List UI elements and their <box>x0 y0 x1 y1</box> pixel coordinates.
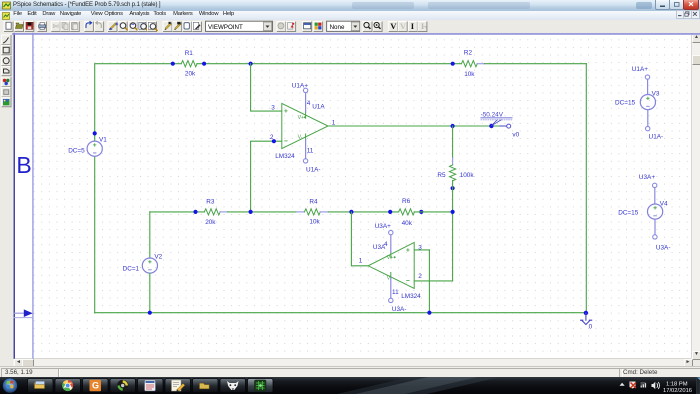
U1A part name LM324 <box>275 153 295 160</box>
wire U3A output branch <box>351 212 368 266</box>
svg-text:R5: R5 <box>437 172 446 179</box>
R4 pin stub left <box>297 211 305 213</box>
U1A- terminal label <box>306 167 321 174</box>
wire U1A pin3 branch <box>251 64 282 111</box>
wire mid net R6 to R5 <box>414 211 452 213</box>
V2 value label DC=1 <box>123 265 140 272</box>
svg-text:U3A+: U3A+ <box>375 223 391 230</box>
svg-text:V2: V2 <box>154 253 162 260</box>
wire top net: V1 to R1 <box>95 64 182 141</box>
wire top net: R2 to right rail <box>484 63 586 65</box>
svg-text:R6: R6 <box>402 198 411 205</box>
junction dot R1 left <box>171 62 175 66</box>
U3A- power terminal <box>389 298 393 302</box>
U3A pin 11 power lead <box>390 273 392 299</box>
V4 top lead <box>654 188 656 204</box>
svg-text:B: B <box>16 152 31 178</box>
border zone divider <box>14 317 33 319</box>
R2 ref label <box>464 50 473 57</box>
U1A pin1 number <box>332 119 336 126</box>
svg-text:11: 11 <box>392 289 399 296</box>
V4 value label DC=15 <box>618 209 639 216</box>
scrollbars <box>691 33 700 358</box>
svg-text:11: 11 <box>307 147 314 154</box>
svg-text:2: 2 <box>418 273 422 280</box>
wire bottom ground rail <box>95 312 587 314</box>
R3 value label 20k <box>205 219 216 226</box>
wire top net: R1 to R2 <box>197 63 462 65</box>
junction dot ground node <box>584 311 588 315</box>
svg-text:U3A-: U3A- <box>656 244 671 251</box>
U3A pin1 number <box>359 257 363 264</box>
wire V2 top lead <box>149 212 151 258</box>
U1A V- inside label <box>298 135 303 141</box>
junction dot above V1 <box>93 131 97 135</box>
wire mid net V2 to R3 <box>150 211 205 213</box>
svg-text:LM324: LM324 <box>275 153 295 160</box>
junction dot R2 left <box>451 62 455 66</box>
svg-text:-50.24V: -50.24V <box>481 111 504 118</box>
V3 top lead <box>647 79 649 94</box>
svg-text:100k: 100k <box>460 172 475 179</box>
V3 bottom lead <box>647 110 649 127</box>
page connector arrow <box>15 309 33 317</box>
window title bar <box>0 0 700 12</box>
U3A part name LM324 <box>401 293 421 300</box>
U3A pin2 number <box>418 273 422 280</box>
voltage source V1 <box>87 141 102 156</box>
U3A+ power terminal <box>389 230 393 234</box>
junction dot R3 left <box>193 210 197 214</box>
wire R5 bottom lead to mid net <box>452 181 454 281</box>
schematic canvas <box>13 33 691 358</box>
svg-text:1: 1 <box>332 119 336 126</box>
V3 plus terminal <box>645 75 649 79</box>
junction dot mid net R5 branch <box>451 210 455 214</box>
svg-text:3: 3 <box>271 105 275 112</box>
V4 bottom lead <box>654 219 656 234</box>
svg-text:R4: R4 <box>309 199 318 206</box>
V1 ref label <box>99 136 107 143</box>
svg-text:1: 1 <box>359 257 363 264</box>
svg-text:0: 0 <box>589 324 593 331</box>
svg-text:20k: 20k <box>205 219 216 226</box>
U1A ref label <box>312 104 325 111</box>
svg-text:20k: 20k <box>185 71 196 78</box>
junction dot mid net U1A branch <box>249 210 253 214</box>
U1A pin 11 power lead <box>305 134 307 159</box>
U3A+ terminal label <box>375 223 391 230</box>
junction dot R1 right <box>202 62 206 66</box>
R5 pin stub <box>452 158 454 165</box>
junction dot top net U1A branch <box>249 62 253 66</box>
page border inner line <box>32 34 34 359</box>
wire mid net R4 to R6 <box>328 211 398 213</box>
V3 minus terminal <box>646 126 650 130</box>
voltage source V2 <box>142 258 157 273</box>
page border top line <box>13 33 700 35</box>
voltage source V3 <box>640 95 655 110</box>
wire U1A output net <box>328 125 500 127</box>
svg-text:DC=15: DC=15 <box>615 99 636 106</box>
border zone label B <box>16 152 31 178</box>
v0 output terminal stub <box>500 125 506 127</box>
wire U1A pin2 branch <box>251 141 282 212</box>
svg-text:U3A-: U3A- <box>392 306 407 313</box>
U3A V+ inside label <box>387 255 396 261</box>
glare streak on taskbar <box>355 377 478 394</box>
V3 U1A+ label <box>632 66 648 73</box>
V3 value label DC=15 <box>615 99 636 106</box>
resistor R3 <box>204 209 220 215</box>
V4 U3A- label <box>656 244 671 251</box>
svg-text:DC=1: DC=1 <box>123 265 140 272</box>
R3 ref label <box>206 199 215 206</box>
wire mid net R3 to R4 <box>228 211 297 213</box>
wire right rail vertical <box>585 64 587 313</box>
voltage source V4 <box>648 204 663 219</box>
svg-text:V+: V+ <box>387 255 394 261</box>
resistor R2 <box>461 61 477 67</box>
viewpoint marker -50.24V <box>481 111 512 125</box>
svg-text:V3: V3 <box>652 91 660 98</box>
page border outer line <box>13 34 15 359</box>
U1A pin4 number <box>307 100 311 107</box>
svg-text:V4: V4 <box>660 200 668 207</box>
wire V1 bottom lead <box>94 156 96 312</box>
V4 minus terminal <box>653 235 657 239</box>
wire U3A pin3 feedback to ground rail <box>428 250 430 313</box>
R4 pin stub right <box>320 211 328 213</box>
svg-text:U3A: U3A <box>373 244 386 251</box>
left tool column <box>0 33 13 358</box>
U1A+ terminal label <box>292 82 308 89</box>
svg-text:DC=15: DC=15 <box>618 209 639 216</box>
junction dot mid net U3A output branch <box>349 210 353 214</box>
ground node label 0 <box>589 324 593 331</box>
R2 pin stub <box>477 63 484 65</box>
svg-text:V-: V- <box>298 135 303 141</box>
U1A pin11 number <box>307 147 314 154</box>
svg-text:2: 2 <box>270 134 274 141</box>
junction dot R6 right <box>419 210 423 214</box>
wire U3A pin2 to R5 branch <box>414 280 452 282</box>
resistor R4 <box>304 209 320 215</box>
R1 ref label <box>185 50 194 57</box>
svg-text:40k: 40k <box>402 220 413 227</box>
V4 ref label <box>660 200 668 207</box>
wire R5 top lead <box>452 126 454 158</box>
junction dot viewpoint <box>489 124 493 128</box>
tray <box>620 383 625 386</box>
v0 node label <box>512 131 519 138</box>
R6 ref label <box>402 198 411 205</box>
svg-text:U3A+: U3A+ <box>639 174 655 181</box>
svg-text:DC=5: DC=5 <box>68 147 85 154</box>
V1 value label DC=5 <box>68 147 85 154</box>
ground symbol 0 <box>581 313 592 325</box>
R5 ref label <box>437 172 446 179</box>
R4 value label 10k <box>309 219 320 226</box>
svg-text:R1: R1 <box>185 50 194 57</box>
V4 U3A+ label <box>639 174 655 181</box>
R5 value label 100k <box>460 172 475 179</box>
svg-text:V+: V+ <box>298 115 305 121</box>
svg-text:U1A: U1A <box>312 104 325 111</box>
status bar <box>0 366 700 378</box>
wire V2 bottom lead <box>149 273 151 313</box>
junction dot feedback ground <box>427 311 431 315</box>
svg-text:10k: 10k <box>309 219 320 226</box>
U3A pin 4 power lead <box>390 235 392 258</box>
U3A- terminal label <box>392 306 407 313</box>
wire U3A pin3 stub <box>414 249 429 251</box>
svg-text:U1A-: U1A- <box>306 167 321 174</box>
op-amp U1A <box>282 103 328 148</box>
R3 pin stub <box>220 211 228 213</box>
U3A pin3 number <box>418 245 422 252</box>
R6 value label 40k <box>402 220 413 227</box>
U1A pin 4 power lead <box>305 93 307 118</box>
toolbar <box>0 20 700 33</box>
U1A pin2 number <box>270 134 274 141</box>
svg-text:U1A+: U1A+ <box>632 66 648 73</box>
R1 value label 20k <box>185 71 196 78</box>
U3A V- inside label <box>387 275 392 281</box>
V2 ref label <box>154 253 162 260</box>
V3 U1A- label <box>649 133 664 140</box>
svg-text:R2: R2 <box>464 50 473 57</box>
resistor R6 <box>399 209 415 215</box>
U3A pin11 number <box>392 289 399 296</box>
svg-text:v0: v0 <box>512 131 519 138</box>
svg-text:R3: R3 <box>206 199 215 206</box>
junction dot R5 bottom <box>451 186 455 190</box>
U1A- power terminal <box>303 159 307 163</box>
U3A pin4 number <box>384 241 388 248</box>
R2 value label 10k <box>464 71 475 78</box>
resistor R1 <box>181 61 197 67</box>
svg-text:U1A+: U1A+ <box>292 82 308 89</box>
v0 terminal circle <box>507 124 511 128</box>
U1A+ power terminal <box>303 88 307 92</box>
R4 ref label <box>309 199 318 206</box>
menu bar <box>0 11 700 21</box>
taskbar <box>0 377 700 394</box>
junction dot V2 ground <box>148 311 152 315</box>
junction dot R6 left <box>388 210 392 214</box>
svg-text:10k: 10k <box>464 71 475 78</box>
resistor R5 <box>450 165 456 181</box>
U3A ref label <box>373 244 386 251</box>
V4 plus terminal <box>653 183 657 187</box>
U1A pin3 number <box>271 105 275 112</box>
op-amp U3A <box>368 242 414 288</box>
svg-text:3: 3 <box>418 245 422 252</box>
svg-text:4: 4 <box>307 100 311 107</box>
svg-text:U1A-: U1A- <box>649 133 664 140</box>
svg-text:LM324: LM324 <box>401 293 421 300</box>
U1A V+ inside label <box>298 115 306 121</box>
junction dot U1A pin2 <box>272 139 276 143</box>
svg-text:V1: V1 <box>99 136 107 143</box>
junction dot output to R5 <box>451 124 455 128</box>
V3 ref label <box>652 91 660 98</box>
